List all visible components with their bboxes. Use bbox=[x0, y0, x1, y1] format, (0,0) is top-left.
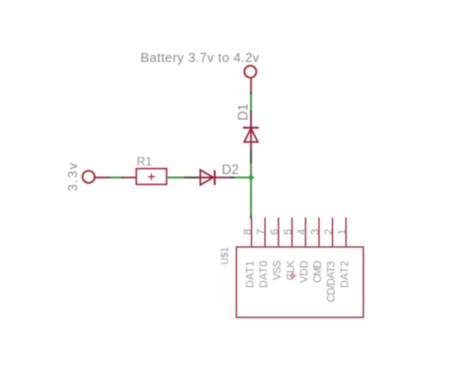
diode D2 triangle bbox=[200, 170, 213, 185]
wire battery net vertical bbox=[250, 95, 252, 111]
wire overlap dark bbox=[250, 111, 252, 114]
diode D2 right pin bbox=[215, 177, 230, 179]
wire overlap dark bbox=[121, 177, 123, 179]
wire overlap dark bbox=[184, 177, 198, 179]
diode D1 top pin bbox=[250, 114, 252, 128]
supply pin BATTERY bbox=[244, 66, 256, 78]
wire overlap dark below D1 bbox=[250, 150, 252, 164]
wire supply pin stub bbox=[250, 78, 252, 91]
resistor R1 left pin bbox=[123, 177, 136, 179]
diode D1 cathode bar bbox=[243, 127, 259, 129]
wire junction to U$1 pin 8 bbox=[250, 180, 252, 216]
supply pin 3.3v bbox=[83, 171, 95, 183]
diode D1 center line / bottom pin bbox=[250, 128, 252, 150]
U$1 pin 4 stub bbox=[305, 217, 307, 247]
wire net to junction vertical bbox=[250, 164, 252, 216]
wire overlap dark bbox=[250, 92, 252, 95]
wire R1 to D2 bbox=[167, 177, 184, 179]
resistor R1 plus mark bbox=[148, 176, 155, 178]
U$1 pin 1 stub bbox=[345, 217, 347, 247]
diode D2 cathode bar bbox=[214, 170, 216, 185]
junction node bbox=[248, 174, 255, 181]
diode D1 triangle bbox=[244, 128, 258, 142]
U$1 pin 5 stub bbox=[291, 217, 293, 247]
wire 3.3v pin stub bbox=[95, 177, 109, 179]
U$1 pin 8 stub bbox=[251, 219, 253, 247]
U$1 pin 7 stub bbox=[264, 217, 266, 247]
diode D2 left pin bbox=[198, 177, 215, 179]
wire overlap dark bbox=[230, 177, 235, 179]
IC U$1 body bbox=[236, 247, 363, 317]
U$1 pin 2 stub bbox=[332, 217, 334, 247]
wire 3.3v net bbox=[110, 177, 122, 179]
wire overlap dark bbox=[108, 177, 110, 179]
U$1 pin 3 stub bbox=[318, 217, 320, 247]
wire overlap dark bbox=[250, 216, 252, 220]
resistor R1 body bbox=[136, 169, 166, 185]
wire D2 to junction bbox=[235, 177, 253, 179]
U$1 pin 6 stub bbox=[278, 217, 280, 247]
